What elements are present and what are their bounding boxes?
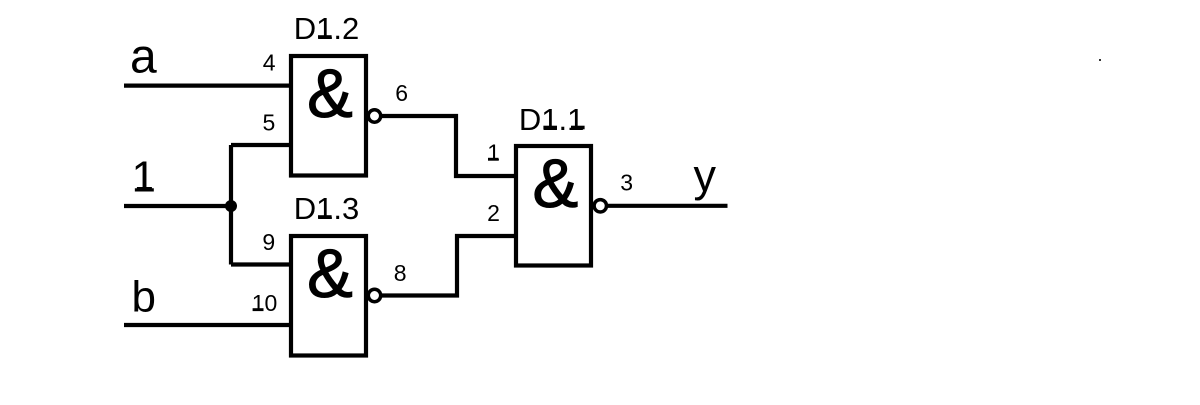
svg-text:D1.2: D1.2 [294,11,359,46]
wire junction vertical [229,145,233,265]
svg-text:3: 3 [620,169,633,195]
svg-text:1: 1 [132,152,156,201]
pin 10 [252,290,278,316]
label gate D1.2 [294,11,359,46]
svg-text:6: 6 [395,80,408,106]
gate body D1.2 [291,56,366,176]
svg-text:D1.1: D1.1 [519,102,584,137]
label gate D1.1 [519,102,585,137]
wire pin 6 to pin 1 [381,116,516,176]
wire output y [608,204,728,208]
svg-text:D1.3: D1.3 [294,191,359,226]
svg-text:1: 1 [487,140,500,166]
wire to pin 5 [231,143,291,147]
wire input b [124,323,291,327]
gate body D1.3 [291,236,366,356]
wire input 1 [124,204,231,208]
pin 1 [487,140,500,166]
label input 1 [132,152,156,201]
inversion bubble pin 3 [594,200,606,212]
wire input a [124,83,291,87]
svg-text:&: & [307,55,353,132]
inversion bubble pin 8 [368,289,380,301]
svg-text:&: & [307,235,353,312]
gate body D1.1 [516,146,591,266]
wire pin 8 to pin 2 [381,236,516,296]
svg-text:2: 2 [487,200,500,226]
wire to pin 9 [231,262,291,266]
inversion bubble pin 6 [368,110,380,122]
svg-text:8: 8 [394,260,407,286]
label gate D1.3 [294,191,359,226]
svg-text:a: a [130,31,157,84]
svg-text:10: 10 [252,290,278,316]
svg-text:&: & [532,145,578,222]
stray dot artifact [1099,59,1101,61]
svg-text:9: 9 [262,229,275,255]
svg-text:5: 5 [263,110,276,136]
svg-text:y: y [694,150,717,201]
junction node dot [225,200,237,212]
svg-text:b: b [132,272,156,321]
svg-text:4: 4 [263,50,276,76]
